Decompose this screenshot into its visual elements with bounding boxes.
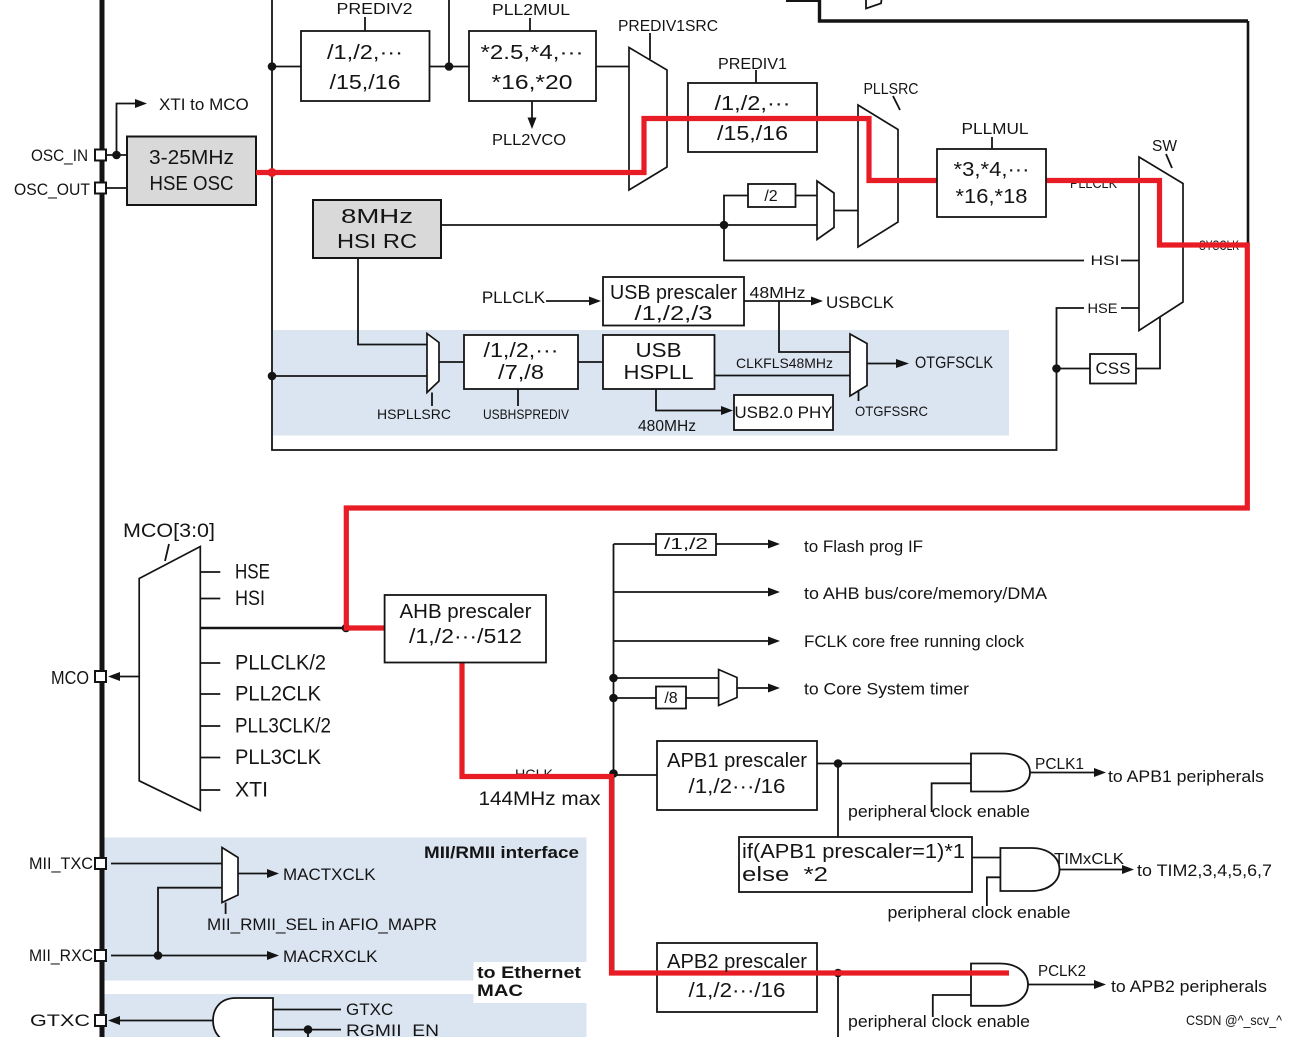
svg-text:MACTXCLK: MACTXCLK [283, 865, 376, 884]
svg-text:to Core System timer: to Core System timer [804, 680, 969, 699]
svg-text:/1,/2,···: /1,/2,··· [484, 340, 559, 362]
svg-text:/15,/16: /15,/16 [717, 123, 788, 145]
svg-text:USB: USB [636, 340, 682, 362]
svg-text:/1,/2,···: /1,/2,··· [327, 42, 403, 64]
svg-text:HSE: HSE [1088, 301, 1118, 316]
svg-text:PREDIV1: PREDIV1 [718, 56, 787, 73]
svg-text:PCLK1: PCLK1 [1035, 756, 1084, 773]
svg-text:MII_RMII_SEL in AFIO_MAPR: MII_RMII_SEL in AFIO_MAPR [207, 915, 437, 934]
svg-text:PCLK2: PCLK2 [1038, 963, 1086, 980]
svg-text:HSI RC: HSI RC [337, 231, 417, 253]
svg-text:XTI to MCO: XTI to MCO [159, 95, 249, 114]
svg-text:PLL2CLK: PLL2CLK [235, 683, 321, 706]
svg-text:PLLCLK/2: PLLCLK/2 [235, 652, 326, 675]
svg-text:GTXC: GTXC [30, 1011, 90, 1030]
svg-text:/1,/2···/512: /1,/2···/512 [409, 626, 522, 648]
svg-text:PLL2MUL: PLL2MUL [492, 2, 570, 19]
svg-text:to Ethernet: to Ethernet [477, 964, 582, 982]
svg-text:MII_RXC: MII_RXC [29, 946, 93, 965]
svg-text:HSPLL: HSPLL [624, 362, 694, 384]
svg-text:/2: /2 [764, 188, 777, 205]
svg-text:peripheral clock enable: peripheral clock enable [888, 903, 1071, 922]
svg-text:8MHz: 8MHz [341, 206, 413, 228]
svg-text:if(APB1 prescaler=1)*1: if(APB1 prescaler=1)*1 [742, 841, 965, 863]
svg-text:to Flash prog IF: to Flash prog IF [804, 537, 923, 556]
svg-text:PLL2VCO: PLL2VCO [492, 132, 566, 149]
svg-text:PREDIV2: PREDIV2 [337, 1, 413, 18]
svg-text:PLLSRC: PLLSRC [864, 81, 919, 98]
svg-text:to AHB bus/core/memory/DMA: to AHB bus/core/memory/DMA [804, 584, 1048, 603]
svg-text:/7,/8: /7,/8 [498, 362, 544, 384]
svg-text:480MHz: 480MHz [638, 418, 696, 435]
svg-text:USBHSPREDIV: USBHSPREDIV [483, 406, 570, 422]
svg-text:PLLMUL: PLLMUL [962, 121, 1029, 138]
svg-text:peripheral clock enable: peripheral clock enable [848, 1012, 1030, 1031]
svg-text:PLLCLK: PLLCLK [482, 288, 546, 307]
svg-text:HSPLLSRC: HSPLLSRC [377, 406, 451, 422]
svg-text:SW: SW [1152, 138, 1178, 155]
svg-text:HSE: HSE [235, 561, 270, 584]
svg-text:/8: /8 [664, 690, 677, 707]
svg-text:MCO: MCO [51, 668, 89, 688]
svg-text:144MHz max: 144MHz max [479, 789, 602, 810]
svg-text:MACRXCLK: MACRXCLK [283, 947, 378, 966]
svg-text:CSS: CSS [1096, 359, 1131, 378]
svg-text:to TIM2,3,4,5,6,7: to TIM2,3,4,5,6,7 [1137, 861, 1272, 880]
svg-text:TIMxCLK: TIMxCLK [1054, 851, 1124, 868]
svg-text:to APB1 peripherals: to APB1 peripherals [1108, 767, 1264, 786]
svg-text:PLL3CLK/2: PLL3CLK/2 [235, 715, 331, 738]
svg-text:FCLK core free running clock: FCLK core free running clock [804, 632, 1025, 651]
svg-text:48MHz: 48MHz [750, 285, 806, 302]
svg-text:/1,/2···/16: /1,/2···/16 [689, 776, 786, 798]
svg-text:HSE OSC: HSE OSC [150, 173, 234, 195]
svg-text:APB2 prescaler: APB2 prescaler [667, 951, 807, 973]
svg-text:PREDIV1SRC: PREDIV1SRC [618, 18, 718, 35]
svg-text:peripheral clock enable: peripheral clock enable [848, 802, 1030, 821]
svg-text:/1,/2,···: /1,/2,··· [715, 93, 791, 115]
svg-text:to APB2 peripherals: to APB2 peripherals [1111, 977, 1267, 996]
svg-text:OSC_OUT: OSC_OUT [14, 180, 90, 199]
svg-text:GTXC: GTXC [346, 1000, 393, 1019]
svg-text:MII_TXC: MII_TXC [29, 854, 93, 873]
svg-text:*3,*4,···: *3,*4,··· [954, 159, 1030, 181]
svg-text:OTGFSSRC: OTGFSSRC [855, 403, 928, 419]
svg-text:*16,*18: *16,*18 [956, 186, 1028, 208]
svg-text:else *2: else *2 [742, 864, 828, 886]
svg-text:HSI: HSI [235, 587, 265, 610]
svg-text:OSC_IN: OSC_IN [31, 146, 88, 165]
svg-text:/1,/2,/3: /1,/2,/3 [635, 303, 713, 325]
svg-text:HSI: HSI [1091, 253, 1120, 268]
svg-text:CSDN @^_scv_^: CSDN @^_scv_^ [1186, 1012, 1282, 1028]
svg-text:MAC: MAC [477, 982, 523, 1000]
svg-text:AHB prescaler: AHB prescaler [400, 601, 532, 623]
svg-text:OTGFSCLK: OTGFSCLK [915, 353, 994, 372]
svg-text:3-25MHz: 3-25MHz [149, 147, 234, 169]
svg-text:/1,/2: /1,/2 [664, 536, 708, 553]
svg-text:/15,/16: /15,/16 [330, 72, 401, 94]
svg-text:USBCLK: USBCLK [826, 293, 895, 312]
svg-text:XTI: XTI [235, 779, 268, 802]
svg-text:MII/RMII interface: MII/RMII interface [424, 844, 579, 862]
svg-text:USB prescaler: USB prescaler [610, 282, 737, 304]
svg-text:USB2.0 PHY: USB2.0 PHY [734, 403, 832, 422]
svg-text:*16,*20: *16,*20 [492, 72, 573, 94]
svg-text:MCO[3:0]: MCO[3:0] [123, 521, 215, 542]
svg-text:/1,/2···/16: /1,/2···/16 [689, 980, 786, 1002]
svg-text:RGMII_EN: RGMII_EN [346, 1021, 439, 1037]
svg-text:*2.5,*4,···: *2.5,*4,··· [481, 42, 584, 64]
svg-text:PLL3CLK: PLL3CLK [235, 746, 321, 769]
svg-text:CLKFLS48MHz: CLKFLS48MHz [736, 355, 833, 371]
svg-text:APB1 prescaler: APB1 prescaler [667, 750, 807, 772]
